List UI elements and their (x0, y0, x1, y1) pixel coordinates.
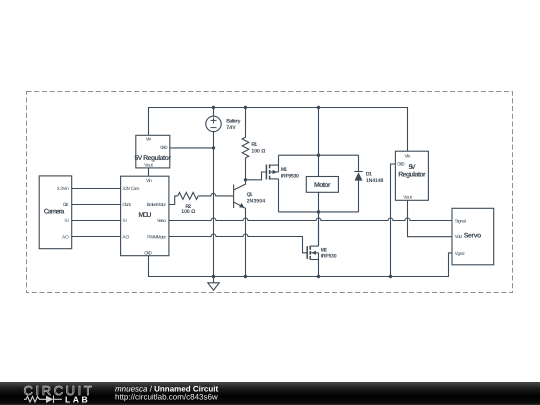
svg-text:M2: M2 (321, 247, 327, 253)
svg-text:MCU: MCU (138, 212, 151, 219)
svg-text:Battery: Battery (226, 119, 240, 125)
svg-text:Servo: Servo (464, 232, 482, 239)
svg-text:http://circuitlab.com/c843s6w: http://circuitlab.com/c843s6w (115, 393, 218, 402)
svg-text:Vin: Vin (146, 137, 152, 142)
svg-text:Vgnd: Vgnd (455, 251, 465, 256)
svg-text:Camera: Camera (44, 208, 65, 215)
svg-text:5V Regulator: 5V Regulator (134, 154, 171, 162)
svg-text:Clock: Clock (122, 202, 131, 207)
svg-text:1N4148: 1N4148 (366, 178, 384, 184)
svg-text:AO: AO (62, 234, 69, 239)
svg-text:SI: SI (122, 218, 126, 223)
svg-text:PWMMotor: PWMMotor (147, 234, 166, 239)
svg-text:D1: D1 (366, 171, 372, 177)
svg-text:Vout: Vout (403, 194, 412, 199)
svg-text:CLK: CLK (63, 202, 70, 207)
svg-text:3.3V Cam: 3.3V Cam (122, 186, 139, 191)
svg-text:LAB: LAB (65, 395, 90, 405)
svg-text:Regulator: Regulator (398, 171, 426, 179)
svg-text:Vin: Vin (146, 178, 152, 183)
svg-text:AO: AO (122, 234, 129, 239)
svg-text:Vout: Vout (144, 162, 153, 167)
svg-text:Signal: Signal (455, 218, 466, 223)
svg-text:2N3904: 2N3904 (247, 198, 266, 204)
svg-text:IRF530: IRF530 (321, 254, 337, 260)
svg-text:7.4 V: 7.4 V (226, 125, 236, 131)
svg-text:R1: R1 (251, 142, 257, 148)
svg-text:BrakeMotor: BrakeMotor (147, 202, 167, 207)
svg-text:Motor: Motor (314, 182, 331, 189)
svg-text:IRF9530: IRF9530 (281, 174, 299, 180)
svg-text:SI: SI (64, 218, 68, 223)
svg-text:M1: M1 (281, 167, 287, 173)
svg-text:3.3Vin: 3.3Vin (57, 186, 69, 191)
svg-text:GND: GND (397, 162, 405, 167)
svg-text:Q1: Q1 (247, 192, 253, 198)
svg-text:GND: GND (160, 145, 168, 150)
svg-text:GND: GND (144, 250, 152, 255)
svg-text:100 Ω: 100 Ω (251, 148, 265, 154)
svg-text:5V: 5V (409, 164, 416, 171)
svg-text:Servo: Servo (157, 218, 166, 223)
svg-text:Vin: Vin (405, 154, 411, 159)
svg-text:100 Ω: 100 Ω (181, 209, 195, 215)
svg-text:Vdd: Vdd (455, 234, 462, 239)
